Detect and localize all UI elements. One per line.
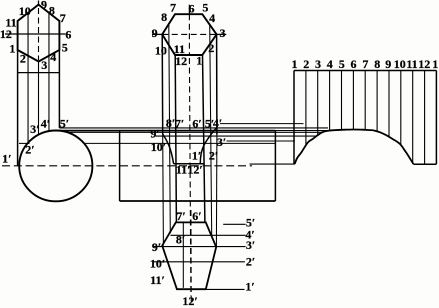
svg-text:7: 7 (60, 11, 66, 25)
svg-text:6′: 6′ (192, 209, 201, 223)
svg-text:4′: 4′ (213, 116, 222, 130)
svg-text:2: 2 (303, 57, 309, 71)
svg-text:12′: 12′ (182, 294, 197, 308)
svg-text:6: 6 (65, 27, 71, 41)
svg-text:9′: 9′ (150, 127, 159, 141)
svg-text:7′: 7′ (176, 209, 185, 223)
svg-text:3: 3 (315, 57, 321, 71)
svg-text:12′: 12′ (187, 163, 202, 177)
svg-text:10′: 10′ (150, 257, 165, 271)
svg-text:4: 4 (327, 57, 333, 71)
svg-text:4′: 4′ (41, 116, 50, 130)
svg-text:5′: 5′ (60, 116, 69, 130)
svg-text:8′: 8′ (176, 232, 185, 246)
svg-text:2′: 2′ (246, 255, 255, 269)
svg-text:2: 2 (20, 52, 26, 66)
svg-text:2′: 2′ (209, 148, 218, 162)
svg-text:3: 3 (41, 58, 47, 72)
svg-text:11: 11 (406, 57, 417, 71)
svg-text:8′: 8′ (166, 116, 175, 130)
svg-text:5: 5 (62, 41, 68, 55)
svg-text:8: 8 (161, 10, 167, 24)
svg-text:4: 4 (209, 11, 215, 25)
svg-text:5: 5 (202, 1, 208, 15)
svg-text:9′: 9′ (152, 240, 161, 254)
svg-text:2′: 2′ (25, 142, 34, 156)
svg-text:1′: 1′ (192, 149, 201, 163)
svg-text:7: 7 (362, 57, 368, 71)
svg-text:9: 9 (152, 26, 158, 40)
svg-text:10: 10 (19, 4, 31, 18)
svg-text:10: 10 (394, 57, 406, 71)
svg-text:8: 8 (374, 57, 380, 71)
svg-text:7′: 7′ (175, 117, 184, 131)
svg-text:1: 1 (432, 57, 438, 71)
svg-text:7: 7 (170, 1, 176, 15)
svg-text:6′: 6′ (192, 117, 201, 131)
svg-text:12: 12 (418, 57, 430, 71)
svg-text:1′: 1′ (245, 280, 254, 294)
svg-text:11′: 11′ (150, 273, 165, 287)
svg-text:9: 9 (41, 0, 47, 12)
svg-text:1: 1 (292, 57, 298, 71)
svg-text:12: 12 (175, 54, 187, 68)
svg-text:2: 2 (208, 41, 214, 55)
svg-text:1: 1 (9, 41, 15, 55)
svg-text:3: 3 (220, 26, 226, 40)
svg-text:3′: 3′ (246, 238, 255, 252)
svg-text:5: 5 (339, 57, 345, 71)
svg-text:6: 6 (189, 1, 195, 15)
svg-text:1: 1 (196, 53, 202, 67)
svg-text:3′: 3′ (30, 122, 39, 136)
svg-text:10′: 10′ (151, 140, 166, 154)
svg-text:3′: 3′ (217, 135, 226, 149)
svg-text:10: 10 (155, 43, 167, 57)
svg-text:8: 8 (49, 3, 55, 17)
svg-text:4: 4 (50, 50, 56, 64)
svg-text:12: 12 (0, 27, 12, 41)
svg-text:6: 6 (351, 57, 357, 71)
svg-text:1′: 1′ (2, 151, 11, 165)
svg-text:9: 9 (385, 57, 391, 71)
